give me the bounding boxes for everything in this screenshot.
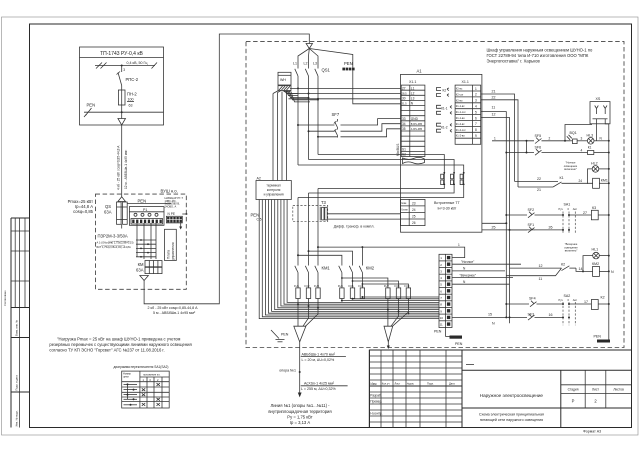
svg-text:S2: S2 (402, 153, 406, 157)
svg-text:ВУШ н.о.: ВУШ н.о. (161, 189, 178, 194)
svg-text:включено": включено" (565, 249, 578, 253)
svg-text:11: 11 (539, 277, 543, 281)
built-in CT transformers in A1 (434, 172, 465, 210)
svg-text:L2: L2 (411, 91, 415, 95)
svg-text:А1: А1 (417, 69, 423, 74)
svg-text:15: 15 (488, 312, 492, 316)
svg-text:30: 30 (402, 97, 406, 101)
svg-text:5: 5 (475, 110, 477, 114)
svg-text:К1-2-во: К1-2-во (456, 134, 465, 138)
svg-text:К2-сог: К2-сог (456, 92, 464, 96)
title block (369, 350, 631, 433)
svg-text:К1-2-сог: К1-2-сог (456, 128, 466, 132)
svg-text:К1-2-вс: К1-2-вс (456, 122, 465, 126)
svg-text:Х1.1: Х1.1 (409, 80, 416, 84)
svg-text:0,4 кВ, 50 Гц: 0,4 кВ, 50 Гц (127, 61, 148, 65)
svg-text:N РЕ: N РЕ (168, 212, 175, 216)
svg-text:10: 10 (440, 316, 444, 320)
svg-text:опора №1: опора №1 (279, 368, 296, 372)
wire VUSh output to cabinet riser (144, 34, 309, 304)
rung SF6 / K1 coil (505, 146, 610, 156)
svg-text:11: 11 (492, 106, 496, 110)
rung K1 contact / KM1 coil (515, 176, 610, 192)
svg-text:В RS-485: В RS-485 (411, 122, 423, 126)
svg-text:Наружное электроосвещение: Наружное электроосвещение (480, 393, 544, 398)
svg-text:31,5: 31,5 (402, 102, 408, 106)
svg-text:1: 1 (494, 137, 496, 141)
svg-text:Iр = 3,13 А: Iр = 3,13 А (290, 420, 311, 425)
svg-text:А2: А2 (257, 176, 261, 180)
svg-text:L = 255 м, ΔU=0,32%: L = 255 м, ΔU=0,32% (301, 387, 337, 391)
meter P1 (129, 207, 164, 226)
PEN bus in TP (84, 103, 164, 118)
svg-text:К2-вс: К2-вс (456, 87, 463, 91)
svg-text:Линия №1 (опоры №1...№11) -: Линия №1 (опоры №1...№11) - (270, 403, 330, 408)
svg-text:22: 22 (492, 96, 496, 100)
lamp HL1 evening light (564, 242, 610, 272)
svg-text:КМ1: КМ1 (322, 265, 331, 270)
svg-text:Uизм: Uизм (401, 208, 408, 212)
svg-text:L = 20 м, ΔU=0,02%: L = 20 м, ΔU=0,02% (302, 358, 336, 362)
svg-text:Инв. № подл.: Инв. № подл. (14, 410, 18, 426)
wires phases to A1 inputs 27/28,5/30 (287, 88, 402, 98)
wires FU7-9 to funnel 2 (388, 299, 409, 327)
svg-text:21: 21 (537, 188, 541, 192)
wire N from PEN terminal to A1 31,5 (353, 70, 401, 103)
svg-text:Подп. и дата: Подп. и дата (14, 375, 18, 391)
cable head out of VUSh (140, 276, 149, 281)
svg-text:L1: L1 (293, 62, 297, 66)
svg-text:12: 12 (539, 264, 543, 268)
svg-text:Кол.уч: Кол.уч (382, 382, 390, 386)
signal wires 21/22 from A1 (481, 90, 518, 187)
svg-text:3: 3 (123, 68, 125, 72)
wires FU4-6 down to X2 bundle (342, 297, 439, 301)
svg-text:ХS: ХS (596, 97, 601, 101)
svg-text:FU8: FU8 (395, 284, 400, 288)
svg-text:Разраб.: Разраб. (370, 394, 382, 398)
svg-text:SF4: SF4 (529, 297, 536, 301)
svg-text:16: 16 (549, 313, 553, 317)
wire bundle WH to phase lines (283, 91, 318, 102)
relay K1-2 contacts (437, 123, 453, 132)
svg-text:НL2: НL2 (591, 161, 598, 165)
svg-text:4 кб - 25 кВт соsφ=0,85-44,8 А: 4 кб - 25 кВт соsφ=0,85-44,8 А (117, 145, 121, 190)
svg-text:Дифф. трансф. в компл.: Дифф. трансф. в компл. (334, 224, 375, 228)
svg-text:К2: К2 (601, 296, 605, 300)
svg-text:КМ1: КМ1 (601, 179, 608, 183)
wires WH to terminal A2 (273, 91, 287, 181)
svg-text:FU2: FU2 (305, 284, 310, 288)
switch diagram table SA1(SA2) (114, 365, 170, 408)
svg-text:Р1: Р1 (143, 208, 147, 212)
svg-text:Iизм: Iизм (401, 201, 406, 205)
svg-text:К1-2: К1-2 (441, 126, 448, 130)
svg-text:К2: К2 (443, 89, 447, 93)
svg-text:63: 63 (129, 104, 133, 108)
controller A1 box (396, 69, 482, 233)
rung SF2 / SA1 / K3 coil (505, 203, 610, 234)
rung SF5 / BQ1 / HL3 (492, 124, 610, 153)
svg-text:5 м - АВБбШв-1 4х95 мм²: 5 м - АВБбШв-1 4х95 мм² (153, 311, 196, 315)
svg-text:6: 6 (475, 116, 477, 120)
svg-text:К1: К1 (560, 176, 564, 180)
box TP-1743 RU-0.4kV (80, 47, 164, 125)
svg-text:FU4: FU4 (338, 284, 343, 288)
wires KM2 group to fuses FU7-FU9 (342, 278, 409, 288)
svg-text:SF7: SF7 (332, 112, 340, 117)
junction dots on risers (297, 87, 363, 256)
wires FU1-3 to output funnel 1 (298, 299, 318, 327)
svg-text:4: 4 (581, 148, 583, 152)
svg-text:63А: 63А (104, 210, 112, 215)
relay K1-1 contacts (437, 105, 453, 114)
VUSh n.o. dashed enclosure (96, 189, 187, 290)
socket XS (590, 97, 610, 124)
svg-text:17: 17 (584, 300, 588, 304)
svg-text:12: 12 (492, 113, 496, 117)
svg-text:Лист: Лист (592, 388, 599, 392)
PEN earth bottom right (594, 330, 611, 343)
svg-text:Встроенные ТТ: Встроенные ТТ (434, 201, 461, 205)
svg-text:А RS-485: А RS-485 (411, 127, 423, 131)
svg-text:К2: К2 (561, 262, 565, 266)
svg-text:2 кб - 25 кВт соsφ=0,85-44,8 А: 2 кб - 25 кВт соsφ=0,85-44,8 А (148, 306, 199, 310)
A1 right terminal table X1.1 (455, 80, 481, 144)
svg-text:РЕN: РЕN (344, 61, 353, 66)
svg-text:Р: Р (572, 399, 575, 404)
contactor KM2 poles (339, 264, 375, 288)
svg-text:Х1.1: Х1.1 (462, 80, 469, 84)
switch RPS-2 (117, 66, 139, 86)
svg-text:26: 26 (549, 226, 553, 230)
fuses FU1-FU9 (294, 284, 411, 299)
svg-text:управления: управления (171, 242, 175, 260)
svg-text:8: 8 (475, 128, 477, 132)
svg-text:33: 33 (402, 117, 406, 121)
load note Pmax (68, 199, 94, 214)
signal wires 11/12 from A1 (481, 106, 510, 324)
svg-text:1: 1 (458, 243, 460, 247)
svg-text:Схема электрическая принципиал: Схема электрическая принципиальная (479, 412, 544, 416)
wires phase taps into A1 CT section (298, 155, 464, 198)
svg-text:К2-во: К2-во (456, 98, 463, 102)
svg-text:НL1: НL1 (592, 247, 599, 251)
svg-text:согласно ТУ КП ЭСНО "Горсвет": согласно ТУ КП ЭСНО "Горсвет" АГС №237 о… (49, 348, 164, 353)
svg-text:терминал: терминал (266, 184, 280, 188)
svg-text:внутриплощадочная территория: внутриплощадочная территория (268, 409, 331, 414)
svg-text:КМ2: КМ2 (366, 265, 375, 270)
svg-text:SА1: SА1 (564, 203, 571, 207)
wires P1 to control grid (137, 223, 156, 240)
svg-text:включено": включено" (564, 167, 577, 171)
svg-text:24ОВО, А: 24ОВО, А (165, 204, 177, 208)
svg-text:РЕN: РЕN (434, 329, 442, 333)
svg-text:РЕN: РЕN (281, 332, 289, 336)
svg-text:Iн=3-30 кВт: Iн=3-30 кВт (438, 206, 457, 210)
svg-text:К1: К1 (588, 146, 592, 150)
svg-text:26: 26 (412, 221, 416, 225)
svg-text:L1: L1 (411, 86, 415, 90)
PEN earth bottom-left of cabinet (271, 330, 289, 342)
svg-text:24: 24 (579, 179, 583, 183)
svg-text:Ру = 1,75 кВт: Ру = 1,75 кВт (287, 415, 312, 420)
svg-text:GND: GND (411, 117, 419, 121)
switch QS 63A (104, 202, 127, 229)
rung SF4 / SA2 / K2 coil (505, 294, 610, 325)
svg-text:ПЗР2М-3-3/50А: ПЗР2М-3-3/50А (98, 234, 128, 239)
svg-text:N: N (492, 322, 495, 326)
svg-text:РЕN: РЕN (594, 335, 602, 339)
svg-text:N: N (611, 270, 614, 274)
svg-text:Руч: Руч (559, 298, 564, 302)
control board box (Plata upravleniya) (165, 229, 177, 260)
wires risers to SF7 (298, 125, 338, 137)
svg-text:Взам. инв. №: Взам. инв. № (14, 320, 18, 336)
diff transformer T3 (293, 200, 375, 228)
phase risers L1 L2 L3 (298, 78, 318, 264)
contactor KM 63A (136, 261, 162, 274)
svg-text:диаграмма переключателя SА1(S: диаграмма переключателя SА1(SА2) (114, 365, 169, 369)
svg-text:РЕN: РЕN (455, 342, 463, 346)
rung SF3 (452, 312, 570, 325)
meter WH (278, 72, 291, 90)
svg-text:питающей сети наружного освеще: питающей сети наружного освещения (480, 418, 543, 422)
svg-text:FU5: FU5 (349, 284, 354, 288)
lamp HL2 night light (564, 161, 610, 184)
svg-text:НL3: НL3 (587, 133, 594, 137)
svg-text:3: 3 (475, 99, 477, 103)
svg-text:контроля: контроля (267, 188, 281, 192)
breaker SF7 (332, 112, 340, 138)
svg-text:28,5: 28,5 (402, 91, 408, 95)
svg-text:PEN: PEN (87, 103, 96, 108)
svg-text:АсХSn-1 4х25 мм²: АсХSn-1 4х25 мм² (304, 382, 335, 386)
note text bottom left (49, 337, 191, 353)
SA table X marks (142, 383, 160, 406)
fuse PN-2 100/63 (118, 86, 137, 113)
terminal unit A2 (256, 176, 291, 199)
cable head into VUSh (118, 197, 126, 202)
svg-text:Стадия: Стадия (568, 388, 579, 392)
svg-text:S1: S1 (402, 148, 406, 152)
svg-text:ПН-2: ПН-2 (127, 92, 137, 97)
svg-text:Листов: Листов (613, 388, 624, 392)
svg-text:"Ночное": "Ночное" (461, 260, 474, 264)
rung SF1 (509, 223, 571, 233)
svg-text:QS: QS (105, 204, 111, 209)
svg-text:К1-1-вс: К1-1-вс (456, 104, 465, 108)
svg-text:ВQ1: ВQ1 (570, 131, 577, 135)
contactor KM1 poles (295, 264, 331, 288)
svg-text:9: 9 (475, 134, 477, 138)
control board relay contact grid (136, 237, 156, 260)
svg-text:МiniВUS: МiniВUS (396, 144, 400, 156)
disconnector QS1, poles L1 L2 L3 (293, 62, 331, 78)
svg-text:SF1: SF1 (528, 223, 535, 227)
svg-text:К1-1-сог: К1-1-сог (456, 110, 466, 114)
svg-text:Энергопоставка" г. Харьков: Энергопоставка" г. Харьков (487, 59, 541, 64)
svg-text:Согласовано: Согласовано (3, 290, 7, 306)
svg-text:SF5: SF5 (535, 134, 542, 138)
svg-text:23: 23 (412, 202, 416, 206)
svg-text:"Вечернее": "Вечернее" (460, 273, 477, 277)
A1 left terminal table X1.1 (401, 80, 425, 157)
svg-text:РПС-2: РПС-2 (126, 77, 139, 82)
svg-text:Формат А3: Формат А3 (583, 429, 601, 433)
svg-text:"Нагрузка Рmax = 25 кВт на шк: "Нагрузка Рmax = 25 кВт на шкаф ШУНО-1 п… (57, 337, 180, 342)
svg-text:100: 100 (128, 98, 134, 102)
svg-text:резервных перемычек с существу: резервных перемычек с существующими лини… (49, 342, 191, 347)
svg-text:11: 11 (440, 323, 443, 327)
svg-text:Изм: Изм (371, 382, 377, 386)
svg-text:SF6: SF6 (535, 146, 542, 150)
svg-text:WН: WН (280, 78, 286, 82)
cable head into cabinet (306, 44, 312, 49)
svg-text:21: 21 (492, 90, 496, 94)
output cable funnel 1 (294, 326, 306, 342)
svg-text:3: 3 (581, 137, 583, 141)
svg-text:FU7: FU7 (384, 284, 389, 288)
right N bus (608, 124, 610, 330)
svg-text:63А: 63А (136, 267, 144, 272)
micro spec text right of VUSh label (165, 196, 184, 208)
PEN terminal block in cabinet (342, 61, 354, 71)
svg-text:25: 25 (412, 215, 416, 219)
PEN bar below X2 (434, 328, 463, 346)
svg-text:К3: К3 (592, 206, 596, 210)
svg-text:SА2: SА2 (564, 294, 571, 298)
bus 0.4kV 50Hz (95, 61, 157, 72)
junction dots fuse outputs to bundle (297, 296, 409, 314)
svg-text:L3: L3 (411, 97, 415, 101)
cabinet ShUNO-1 dashed enclosure (246, 42, 624, 348)
output cable funnel 2 (384, 326, 393, 342)
svg-text:РЕN: РЕN (138, 198, 147, 203)
svg-text:К1-1: К1-1 (441, 107, 448, 111)
svg-text:7: 7 (475, 122, 477, 126)
svg-text:№док.: №док. (407, 383, 415, 386)
svg-text:QS1: QS1 (322, 68, 331, 73)
terminal strip X2 (439, 254, 452, 327)
svg-text:Плата: Плата (166, 250, 170, 259)
svg-text:12 м - АВБбШв-1 4х95 мм²: 12 м - АВБбШв-1 4х95 мм² (124, 150, 128, 189)
svg-text:FU6: FU6 (358, 284, 363, 288)
svg-text:27: 27 (402, 86, 406, 90)
cable squiggle below X1.1 (403, 157, 425, 164)
wires phases to KM2 (298, 247, 465, 263)
svg-text:Руч: Руч (559, 207, 564, 211)
svg-text:Шкаф управления наружным освещ: Шкаф управления наружным освещением ШУНО… (487, 48, 594, 53)
terminal N PE (166, 212, 187, 229)
line N1 cable run (268, 342, 347, 425)
wires 25 from A1 bottom to ladder (482, 222, 535, 230)
wires SF7 to A1 rows 33/34/35 (341, 119, 402, 137)
svg-text:Дата: Дата (449, 382, 455, 386)
svg-text:ТП-1743 РУ-0,4 кВ: ТП-1743 РУ-0,4 кВ (100, 51, 143, 57)
SA table ladder marks (124, 383, 138, 405)
svg-text:FU9: FU9 (404, 284, 409, 288)
svg-text:К1-1-во: К1-1-во (456, 116, 465, 120)
svg-text:Провер.: Провер. (370, 400, 382, 404)
svg-text:Н.контр.: Н.контр. (370, 412, 382, 416)
svg-text:соsφ=0,85: соsφ=0,85 (73, 209, 94, 214)
svg-text:положение кл.: положение кл. (143, 374, 161, 377)
svg-text:L3: L3 (313, 62, 317, 66)
relay K2 contacts (437, 88, 450, 97)
svg-text:FU1: FU1 (294, 284, 299, 288)
svg-text:АВБбШв-1 4х70 мм²: АВБбШв-1 4х70 мм² (302, 352, 336, 356)
svg-text:22: 22 (537, 177, 541, 181)
svg-text:SF2: SF2 (528, 208, 535, 212)
left margin attribute table (3, 218, 29, 428)
svg-text:Т3: Т3 (321, 200, 327, 205)
svg-text:КМ: КМ (138, 262, 144, 267)
svg-text:14: 14 (579, 267, 583, 271)
svg-text:цепи: цепи (123, 376, 129, 379)
svg-text:ГОСТ 22789-94 типа И-710 изгот: ГОСТ 22789-94 типа И-710 изготовления ОО… (487, 53, 589, 58)
svg-text:2: 2 (475, 93, 477, 97)
svg-text:FU3: FU3 (314, 284, 319, 288)
svg-text:35: 35 (402, 127, 406, 131)
wire fan from entry to QS1 and PEN (298, 49, 353, 68)
svg-text:27: 27 (583, 211, 587, 215)
svg-text:Подп.: Подп. (427, 382, 434, 386)
feeder cable TP to VUSh (117, 125, 129, 197)
svg-text:34: 34 (402, 122, 406, 126)
svg-text:2: 2 (549, 137, 551, 141)
svg-text:L2: L2 (304, 62, 308, 66)
svg-text:1: 1 (475, 87, 477, 91)
svg-text:4: 4 (475, 105, 477, 109)
X2 output wires with labels (452, 243, 521, 284)
cable head at TP output (118, 119, 126, 126)
svg-text:25: 25 (492, 226, 496, 230)
svg-text:и управления: и управления (264, 192, 284, 196)
wire bundle A2 to X2 strip (259, 200, 439, 319)
rung K2 contact / KM2 coil (506, 262, 614, 281)
terminal table 23-26 (401, 199, 426, 225)
svg-text:Лист: Лист (395, 382, 401, 386)
svg-text:24: 24 (412, 208, 416, 212)
wires T3 to table rows 25/26 (327, 214, 400, 219)
svg-text:КМ2: КМ2 (592, 262, 599, 266)
